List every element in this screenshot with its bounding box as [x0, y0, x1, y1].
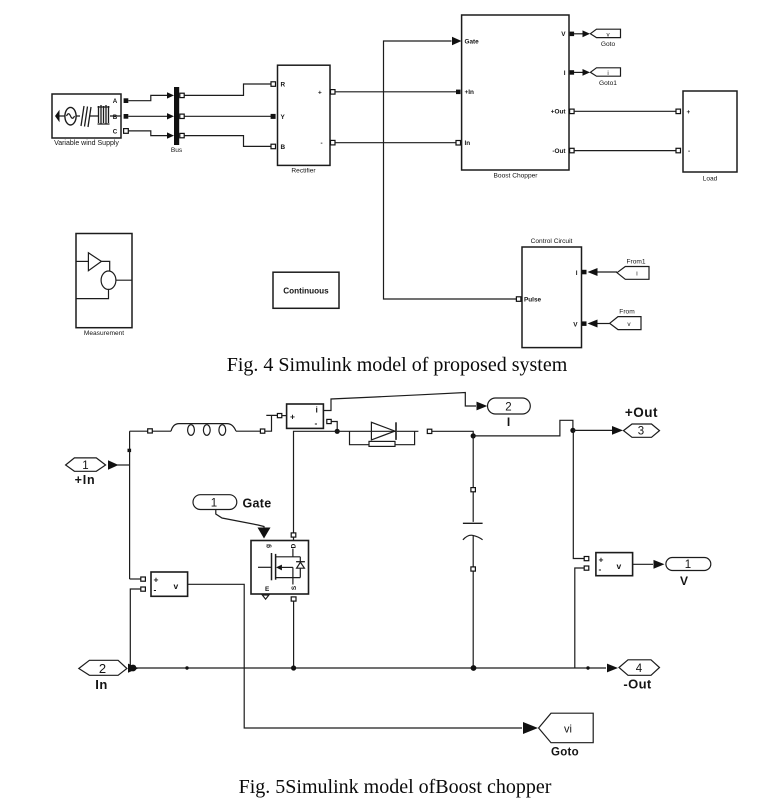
svg-text:+Out: +Out: [551, 109, 567, 116]
svg-text:-: -: [315, 418, 318, 428]
wire node to mosfet drain: [294, 431, 338, 533]
bus output port squares: [180, 93, 184, 97]
svg-text:Load: Load: [703, 176, 718, 183]
mosfet source square and wire: [291, 597, 296, 601]
left rail vertical: [129, 431, 131, 579]
svg-text:i: i: [316, 405, 318, 415]
svg-text:v: v: [617, 561, 622, 571]
svg-text:i: i: [636, 271, 637, 278]
diode D1: [371, 422, 395, 440]
svg-text:I: I: [576, 270, 578, 277]
rectifier U1: [278, 65, 331, 165]
load block: [683, 91, 737, 172]
wire Gate to mosfet g: [216, 510, 264, 529]
svg-text:From1: From1: [626, 258, 645, 265]
wire I to Goto1: [574, 71, 583, 73]
svg-text:R: R: [281, 82, 286, 89]
svg-text:Goto: Goto: [601, 41, 616, 48]
svg-text:A: A: [113, 98, 118, 105]
boost chopper block: [462, 15, 569, 170]
svg-text:Goto1: Goto1: [599, 80, 617, 87]
wire bus to B: [184, 136, 271, 147]
wire B to Bus: [128, 115, 168, 117]
wire voltmeter to outport 1 V: [633, 563, 653, 565]
svg-text:In: In: [465, 140, 471, 147]
svg-text:+In: +In: [75, 473, 96, 487]
goto tag i: [590, 68, 620, 76]
diode output square: [427, 429, 432, 433]
inductor L: [171, 424, 260, 436]
svg-text:2: 2: [505, 402, 511, 414]
wire From1 i to control I: [597, 271, 617, 273]
wire bus to R: [184, 84, 271, 95]
svg-text:S: S: [291, 585, 298, 590]
svg-text:In: In: [95, 677, 108, 692]
svg-text:+: +: [687, 109, 691, 116]
svg-text:+Out: +Out: [625, 405, 658, 420]
svg-text:B: B: [281, 144, 286, 151]
svg-text:Pulse: Pulse: [524, 297, 541, 304]
capacitor C1: [472, 436, 474, 488]
wire rail to inductor: [130, 430, 148, 432]
svg-text:Fig. 5Simulink model ofBoost c: Fig. 5Simulink model ofBoost chopper: [239, 776, 552, 798]
port labels A B C of source: [113, 98, 118, 135]
svg-text:Bus: Bus: [171, 147, 183, 154]
wire node C down to voltmeter: [573, 430, 584, 558]
node C: [570, 428, 575, 433]
svg-text:Boost Chopper: Boost Chopper: [494, 173, 539, 180]
goto tag v: [590, 29, 620, 37]
svg-text:V: V: [573, 322, 578, 329]
svg-text:E: E: [265, 586, 270, 593]
wire inductor to current meter: [265, 415, 278, 431]
svg-text:-Out: -Out: [552, 148, 566, 155]
svg-text:Gate: Gate: [465, 38, 480, 45]
svg-text:3: 3: [638, 426, 644, 438]
mosfet port letters: [265, 543, 298, 593]
bottom rail: [131, 667, 606, 669]
svg-text:v: v: [174, 581, 179, 591]
boost input squares: [456, 90, 461, 95]
svg-text:+: +: [290, 412, 295, 422]
inport 1 +In: [66, 458, 106, 471]
wire C to Bus: [128, 131, 168, 136]
wire node to diode: [337, 430, 396, 432]
gate feedback wire from Pulse: [384, 41, 517, 299]
wire voltmeter V1 to goto vi: [188, 584, 522, 728]
svg-text:1: 1: [685, 559, 691, 571]
wire rail to outport 4: [607, 664, 618, 673]
svg-text:Y: Y: [281, 114, 286, 121]
svg-text:g: g: [265, 544, 272, 548]
wire rectifier + to boost +In: [335, 91, 456, 93]
node B top of capacitor: [471, 433, 476, 438]
wire diode to node B: [432, 431, 473, 436]
outport 3 +Out: [624, 424, 660, 437]
junction dots on bottom rail: [130, 665, 137, 672]
svg-text:+: +: [599, 555, 604, 565]
svg-text:Goto: Goto: [551, 747, 579, 759]
svg-text:-: -: [154, 584, 157, 594]
wire rectifier - to boost In: [335, 142, 456, 144]
svg-text:-Out: -Out: [623, 676, 652, 691]
unconnected E marker: [262, 595, 269, 599]
svg-text:-: -: [599, 564, 602, 574]
svg-text:Variable wind Supply: Variable wind Supply: [54, 140, 119, 147]
svg-text:From: From: [619, 309, 635, 316]
svg-text:1: 1: [211, 497, 217, 509]
svg-text:+: +: [154, 575, 159, 585]
svg-text:B: B: [113, 114, 118, 121]
wire -Out to Load: [574, 150, 676, 152]
svg-text:C: C: [113, 129, 118, 136]
left voltmeter V1 wires: [130, 578, 141, 580]
outport 1 V: [666, 558, 711, 571]
svg-text:Gate: Gate: [243, 496, 272, 510]
wire From v to control V: [597, 323, 610, 325]
svg-text:V: V: [561, 31, 566, 38]
current measurement block i: [287, 404, 324, 428]
voltmeter V2 (output): [596, 553, 633, 576]
node A after current sensor: [335, 429, 340, 434]
svg-text:D: D: [291, 543, 298, 548]
bus bar: [174, 87, 179, 145]
svg-text:vi: vi: [564, 723, 572, 735]
wire +In to left rail: [108, 460, 119, 470]
powergui Continuous block: [273, 272, 339, 308]
outport 2 I: [488, 398, 531, 414]
svg-text:+: +: [318, 89, 322, 96]
svg-text:I: I: [507, 415, 510, 429]
svg-text:Continuous: Continuous: [283, 286, 329, 295]
wire i minus down to node: [327, 419, 331, 423]
svg-text:Measurement: Measurement: [84, 330, 124, 337]
svg-text:Control Circuit: Control Circuit: [531, 238, 573, 245]
mosfet Q1: [251, 541, 309, 595]
wire A to Bus: [128, 95, 168, 100]
svg-text:4: 4: [636, 663, 643, 675]
snubber resistor bypass: [350, 431, 415, 444]
wire +Out to Load: [574, 110, 676, 112]
measurement block: [76, 234, 132, 328]
source block Variable wind Supply: [52, 94, 121, 138]
node dot on left rail: [128, 449, 132, 452]
svg-text:+In: +In: [465, 89, 475, 96]
inport 2 In: [79, 660, 127, 675]
svg-text:-: -: [688, 148, 690, 155]
staircase wire i to outport 2: [323, 393, 476, 411]
svg-text:I: I: [564, 70, 566, 77]
wire node C to outport 3: [573, 429, 612, 431]
svg-text:2: 2: [99, 661, 106, 676]
svg-text:Rectifier: Rectifier: [291, 168, 316, 175]
svg-text:V: V: [680, 574, 688, 588]
boost output squares: [570, 32, 575, 36]
rectifier input port squares R Y B: [271, 82, 276, 87]
svg-text:i: i: [607, 70, 608, 77]
goto tag vi: [539, 713, 594, 743]
wire bus to Y: [184, 115, 271, 117]
voltmeter V1 (input): [151, 572, 188, 596]
rectifier output squares: [331, 90, 336, 95]
svg-text:Fig. 4 Simulink model of propo: Fig. 4 Simulink model of proposed system: [227, 354, 568, 376]
svg-text:-: -: [321, 140, 323, 147]
svg-text:1: 1: [82, 460, 88, 472]
wire V to Goto: [574, 33, 583, 35]
wire node B to +Out bump: [473, 420, 573, 436]
port squares A B C: [124, 98, 129, 103]
inport 1 Gate: [193, 495, 237, 510]
outport 4 -Out: [619, 660, 660, 676]
